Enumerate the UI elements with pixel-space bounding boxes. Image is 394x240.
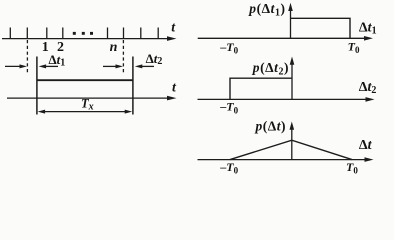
tick 8: [157, 28, 159, 39]
plot1 uniform pdf rectangle: [291, 18, 351, 38]
label dt1 (plot1): [359, 20, 377, 36]
label p(dt): [255, 118, 286, 133]
svg-text:T0: T0: [346, 160, 358, 176]
time axis 2: [7, 96, 177, 101]
svg-text:p(Δt1): p(Δt1): [248, 1, 285, 19]
tick 4 (pulse 2): [62, 28, 64, 39]
label dt (plot3): [359, 138, 373, 153]
svg-text:p(Δt): p(Δt): [255, 118, 286, 133]
svg-text:Δt2: Δt2: [146, 51, 163, 67]
plot2 uniform pdf rectangle: [230, 78, 292, 99]
label T0 (plot3): [346, 160, 358, 176]
svg-text:n: n: [110, 40, 118, 55]
label T0 (plot1): [348, 39, 360, 55]
plot2 vertical axis: [290, 57, 295, 100]
label -T0 (plot3): [219, 160, 238, 176]
svg-text:t: t: [172, 81, 177, 96]
plot3 triangular pdf: [230, 140, 352, 159]
plot2 horizontal axis: [198, 97, 375, 102]
label p(dt2): [252, 60, 289, 78]
svg-text:Δt2: Δt2: [359, 80, 377, 96]
tick 3 (pulse 1): [46, 28, 48, 39]
plot3 vertical axis: [290, 122, 295, 160]
plot1 horizontal axis: [198, 36, 373, 41]
label n: [110, 40, 118, 55]
time axis 1: [2, 36, 177, 41]
svg-text:t: t: [171, 20, 176, 35]
label -T0 (plot1): [219, 40, 238, 56]
dashed line right: [122, 40, 124, 75]
svg-text:–T0: –T0: [219, 160, 238, 176]
label t (axis 1): [171, 20, 176, 35]
label dt2 (plot2): [359, 80, 377, 96]
gate right edge: [132, 57, 134, 115]
plot1 vertical axis: [288, 3, 293, 39]
svg-text:Δt1: Δt1: [359, 20, 377, 36]
label delta-t1: [49, 52, 66, 68]
delta-t1 right arrow: [5, 64, 27, 68]
label Tx: [81, 96, 94, 112]
gate top line: [37, 79, 133, 81]
tick 6 (pulse n): [123, 28, 125, 39]
label p(dt1): [248, 1, 285, 19]
delta-t2 right arrow: [103, 64, 123, 68]
ellipsis dots: [73, 32, 93, 35]
tick 5: [107, 28, 109, 39]
svg-text:Tx: Tx: [81, 96, 94, 112]
Tx double arrow: [38, 110, 133, 114]
label 2: [57, 40, 64, 55]
label delta-t2: [146, 51, 163, 67]
svg-text:T0: T0: [348, 39, 360, 55]
delta-t1 left arrow: [39, 64, 58, 68]
gate left edge: [36, 57, 38, 115]
tick 7: [140, 28, 142, 39]
label -T0 (plot2): [219, 100, 238, 116]
tick 2 (start of interval): [26, 28, 28, 39]
tick 1: [9, 28, 11, 39]
delta-t2 left arrow: [135, 64, 154, 68]
svg-text:Δt: Δt: [359, 138, 373, 153]
label t (axis 2): [172, 81, 177, 96]
svg-text:–T0: –T0: [219, 40, 238, 56]
svg-text:p(Δt2): p(Δt2): [252, 60, 289, 78]
label 1: [42, 40, 49, 55]
plot3 horizontal axis: [198, 157, 374, 162]
dashed line left: [26, 40, 28, 75]
svg-text:–T0: –T0: [219, 100, 238, 116]
